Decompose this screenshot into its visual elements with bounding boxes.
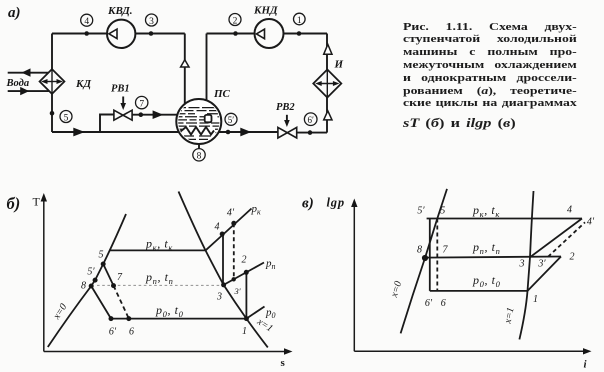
po bottom isobar [430, 290, 528, 292]
compression 3-4 [222, 234, 224, 285]
svg-text:3: 3 [519, 259, 525, 270]
lgp vertical axis [353, 202, 355, 351]
I inner double arrow [319, 83, 336, 85]
svg-text:pп: pп [265, 258, 276, 272]
compression 3-4 [530, 219, 582, 258]
svg-text:1: 1 [242, 326, 247, 337]
compressor KVD circle [107, 20, 135, 48]
svg-text:x=1: x=1 [502, 306, 516, 325]
svg-text:б): б) [7, 194, 21, 213]
svg-text:7: 7 [443, 245, 449, 256]
svg-text:4: 4 [215, 222, 220, 233]
pp dotted line 8 to 3 [97, 284, 222, 286]
x=1 saturation curve [519, 191, 533, 339]
node 2 label circle [229, 14, 241, 26]
svg-text:6: 6 [129, 327, 134, 338]
compressor KND circle [255, 19, 284, 48]
pp superheat isobar through 2 [224, 263, 264, 285]
svg-text:3: 3 [149, 17, 154, 27]
T-s horizontal axis [44, 351, 286, 353]
flow arrow RV1 line [153, 110, 164, 119]
svg-text:5: 5 [99, 250, 104, 261]
svg-text:5: 5 [440, 206, 445, 217]
svg-text:7: 7 [139, 99, 144, 109]
svg-text:7: 7 [117, 272, 123, 283]
valve RV2 bowtie [278, 127, 297, 138]
compression 1-2 [528, 257, 562, 291]
pk isotherm line [109, 249, 206, 251]
svg-text:2: 2 [242, 255, 247, 266]
node 4 dot [84, 31, 89, 36]
svg-text:6′: 6′ [425, 298, 433, 309]
point 6 [126, 316, 131, 321]
throttle 8-6' [91, 286, 111, 319]
svg-text:5′: 5′ [228, 115, 235, 125]
svg-text:2: 2 [233, 16, 238, 26]
caption [403, 21, 577, 130]
top-right wire KND section [207, 33, 255, 35]
KVD flow triangle [109, 29, 117, 38]
svg-text:3′: 3′ [233, 286, 240, 296]
point 8 [89, 284, 94, 289]
node 7 label circle [136, 96, 148, 108]
svg-text:5′: 5′ [87, 267, 95, 278]
point 2 [244, 270, 249, 275]
KND flow triangle [256, 29, 264, 39]
node 2 dot [233, 31, 238, 36]
svg-text:КНД: КНД [253, 5, 278, 17]
svg-text:И: И [334, 59, 344, 71]
point 8 dot [422, 255, 428, 261]
x=0 saturation curve [401, 189, 447, 334]
svg-text:lgp: lgp [327, 196, 345, 210]
point 6' [109, 316, 114, 321]
water arrow left [22, 68, 31, 76]
svg-text:КД: КД [75, 78, 91, 90]
svg-text:6: 6 [441, 298, 446, 309]
compression 1-2 [245, 272, 247, 318]
wire KD down to bottom line [51, 94, 53, 132]
flow triangle above evaporator [324, 44, 332, 54]
node 3 label circle [146, 14, 158, 26]
point 5 [101, 262, 106, 267]
svg-text:x=0: x=0 [389, 280, 405, 300]
svg-text:в): в) [302, 196, 314, 212]
node 5' label circle [225, 113, 237, 125]
svg-text:Вода: Вода [6, 78, 30, 89]
svg-text:pп, tп: pп, tп [145, 270, 173, 286]
svg-text:4: 4 [84, 17, 89, 27]
point 3' [232, 277, 236, 281]
po isobar line 6' to 1 [111, 318, 246, 320]
svg-text:1: 1 [533, 294, 538, 305]
water inlet pipe top [8, 72, 49, 74]
svg-text:s: s [281, 357, 286, 369]
vessel liquid hatching [176, 108, 231, 140]
svg-text:i: i [584, 359, 588, 371]
svg-text:pк, tк: pк, tк [145, 237, 173, 253]
svg-text:4′: 4′ [587, 217, 595, 228]
water arrow right [20, 87, 29, 95]
svg-text:4: 4 [567, 205, 572, 216]
wire KVD to riser [135, 33, 185, 35]
svg-text:6′: 6′ [109, 327, 117, 338]
water outlet pipe bottom [8, 90, 49, 92]
dashed compression 3'-4' [548, 222, 585, 256]
point 4 [220, 232, 225, 237]
flow arrow to RV2 [240, 128, 251, 137]
svg-text:8: 8 [197, 152, 202, 162]
dot after RV1 [139, 112, 144, 117]
svg-text:РВ2: РВ2 [276, 102, 295, 113]
svg-text:4′: 4′ [227, 208, 235, 219]
svg-text:3: 3 [216, 292, 222, 303]
dashed throttle 7-6 [114, 286, 129, 319]
riser to KVD suction [184, 34, 186, 105]
pp middle isobar [425, 257, 562, 258]
node 1 dot [297, 31, 302, 36]
throttle 5-7 [103, 264, 113, 286]
KD inner vertical line [51, 69, 53, 94]
dashed 4'-3' [233, 223, 235, 279]
node 3 dot [149, 31, 154, 36]
vessel PS circle [176, 99, 221, 144]
x=1 saturation curve [179, 192, 268, 348]
pk superheat isobar through 4 and 4' [206, 209, 252, 251]
left vertical 5'-6' [429, 219, 431, 291]
RV1 stem arrow [122, 97, 124, 105]
node 8 label circle [193, 149, 205, 161]
riser I to top wire [326, 34, 328, 70]
vessel coil zigzag [181, 127, 215, 135]
riser to evaporator [326, 98, 328, 133]
svg-text:pк: pк [251, 203, 262, 217]
svg-text:p0: p0 [265, 307, 276, 321]
riser from KND discharge into vessel [206, 34, 208, 116]
point 7 [111, 283, 116, 288]
svg-text:pп, tп: pп, tп [472, 240, 500, 256]
bottom liquid wire [52, 131, 278, 133]
valve RV1 bowtie [114, 110, 132, 120]
svg-text:8: 8 [81, 281, 86, 292]
svg-text:3′: 3′ [537, 259, 546, 270]
point 5' [93, 278, 98, 283]
x=0 saturation curve [48, 214, 126, 347]
I inner vertical [326, 70, 328, 98]
junction dot below KD [50, 111, 55, 116]
dashed vertical 5-7-6 [436, 219, 438, 291]
svg-text:2: 2 [570, 252, 575, 263]
wire valve RV1 to vessel [132, 114, 178, 116]
point 3 [221, 282, 226, 287]
svg-text:а): а) [8, 5, 21, 21]
wire down to condenser [51, 34, 53, 70]
RV1 branch riser [100, 115, 114, 133]
svg-text:p0, t0: p0, t0 [472, 273, 501, 289]
svg-text:РВ1: РВ1 [111, 84, 130, 95]
node 5 label circle [60, 111, 72, 123]
i horizontal axis [354, 350, 585, 352]
RV2 stem arrow [286, 115, 288, 122]
node 6' label circle [304, 113, 317, 126]
point 1 [244, 316, 249, 321]
svg-text:8: 8 [417, 245, 422, 256]
wire top-left from node 4 corner to KVD [52, 33, 107, 35]
node 4 label circle [81, 14, 93, 26]
svg-text:ПС: ПС [213, 88, 231, 100]
pk top isobar [427, 218, 582, 220]
node 6' dot [308, 130, 313, 135]
svg-text:5′: 5′ [417, 206, 425, 217]
KD inner double arrow [45, 81, 60, 83]
wire RV2 to evaporator riser [297, 132, 327, 134]
svg-text:КВД.: КВД. [107, 5, 132, 17]
node 5' dot [226, 130, 231, 135]
svg-text:pк, tк: pк, tк [472, 203, 500, 219]
flow arrow on bottom wire [73, 128, 85, 137]
svg-text:6′: 6′ [307, 115, 314, 125]
node 1 label circle [294, 13, 306, 25]
vessel outlet square [205, 115, 212, 122]
evaporator I diamond [313, 70, 341, 98]
T-s vertical axis [43, 197, 45, 352]
flow triangle up on KVD riser [181, 60, 189, 67]
svg-text:1: 1 [297, 16, 302, 26]
svg-text:p0, t0: p0, t0 [155, 303, 184, 319]
po superheat stub [246, 307, 264, 319]
flow triangle below evaporator [324, 111, 332, 120]
point 4' [231, 221, 236, 226]
condenser KD diamond [40, 69, 65, 94]
svg-text:T: T [33, 195, 41, 209]
node 8 stub [198, 144, 200, 149]
svg-text:5: 5 [64, 113, 69, 123]
